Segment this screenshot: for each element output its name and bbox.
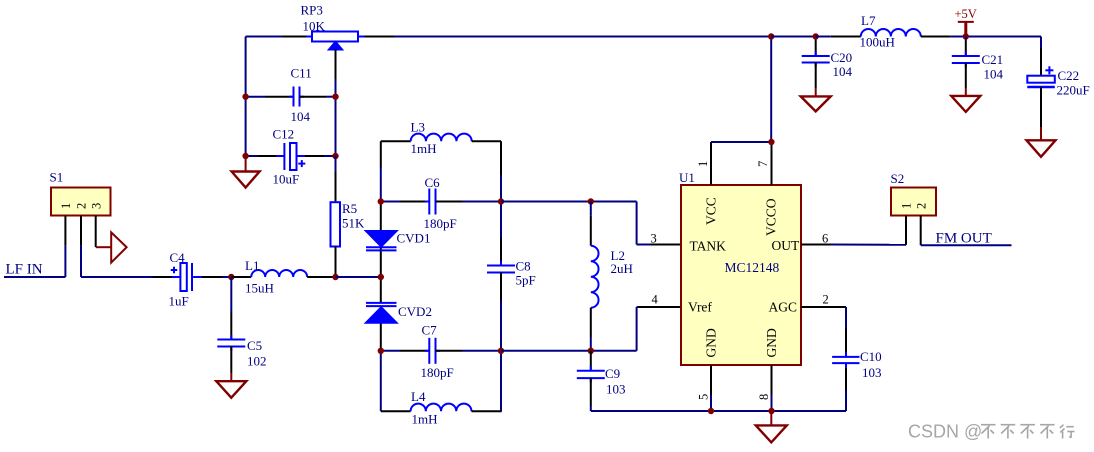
- svg-text:S2: S2: [891, 171, 905, 186]
- svg-text:RP3: RP3: [301, 3, 323, 18]
- svg-text:FM OUT: FM OUT: [936, 231, 992, 247]
- svg-text:GND: GND: [704, 328, 719, 357]
- svg-text:7: 7: [756, 161, 770, 167]
- svg-text:1uF: 1uF: [169, 294, 189, 309]
- svg-text:GND: GND: [764, 328, 779, 357]
- svg-text:10uF: 10uF: [273, 172, 300, 187]
- svg-text:104: 104: [833, 64, 853, 79]
- svg-text:S1: S1: [50, 170, 64, 185]
- svg-text:4: 4: [652, 293, 659, 307]
- svg-text:CVD2: CVD2: [398, 304, 432, 319]
- svg-text:180pF: 180pF: [424, 216, 457, 231]
- svg-text:L4: L4: [411, 389, 426, 404]
- svg-text:2uH: 2uH: [611, 261, 633, 276]
- svg-text:L7: L7: [861, 13, 876, 28]
- svg-text:2: 2: [914, 203, 928, 209]
- svg-text:220uF: 220uF: [1057, 83, 1090, 98]
- svg-text:1: 1: [59, 203, 73, 209]
- svg-text:LF IN: LF IN: [6, 262, 43, 278]
- svg-text:8: 8: [757, 394, 771, 400]
- svg-text:L1: L1: [245, 258, 259, 273]
- svg-text:6: 6: [822, 232, 828, 246]
- svg-text:OUT: OUT: [772, 238, 800, 253]
- svg-text:VCCO: VCCO: [764, 198, 779, 236]
- svg-text:C21: C21: [982, 52, 1004, 67]
- svg-text:VCC: VCC: [704, 197, 719, 225]
- svg-text:AGC: AGC: [769, 300, 798, 315]
- svg-text:103: 103: [862, 365, 882, 380]
- svg-text:100uH: 100uH: [860, 35, 895, 50]
- svg-text:MC12148: MC12148: [725, 260, 780, 275]
- svg-text:180pF: 180pF: [421, 365, 454, 380]
- svg-text:C10: C10: [860, 349, 882, 364]
- svg-text:C8: C8: [516, 259, 531, 274]
- svg-text:1mH: 1mH: [412, 412, 438, 427]
- svg-text:C5: C5: [247, 338, 262, 353]
- svg-text:C4: C4: [170, 250, 186, 265]
- svg-text:C6: C6: [425, 175, 441, 190]
- svg-text:104: 104: [984, 67, 1004, 82]
- svg-text:2: 2: [75, 203, 89, 209]
- svg-text:10K: 10K: [303, 19, 326, 34]
- svg-text:103: 103: [606, 382, 626, 397]
- svg-text:+5V: +5V: [955, 7, 977, 21]
- svg-text:Vref: Vref: [688, 300, 712, 315]
- svg-text:CVD1: CVD1: [397, 231, 431, 246]
- svg-text:C7: C7: [422, 323, 438, 338]
- svg-text:15uH: 15uH: [245, 281, 274, 296]
- svg-text:51K: 51K: [342, 216, 365, 231]
- svg-text:1: 1: [696, 161, 710, 167]
- svg-text:L3: L3: [411, 120, 425, 135]
- svg-text:C22: C22: [1058, 68, 1080, 83]
- svg-text:U1: U1: [679, 170, 695, 185]
- svg-text:1: 1: [900, 203, 914, 209]
- svg-text:TANK: TANK: [690, 239, 727, 254]
- svg-text:C11: C11: [291, 66, 312, 81]
- svg-text:C20: C20: [831, 50, 853, 65]
- svg-text:102: 102: [247, 354, 267, 369]
- svg-text:104: 104: [291, 109, 311, 124]
- svg-text:C9: C9: [605, 366, 620, 381]
- svg-text:5pF: 5pF: [516, 273, 536, 288]
- svg-text:CSDN @: CSDN @: [908, 422, 982, 442]
- svg-text:2: 2: [823, 293, 829, 307]
- svg-text:1mH: 1mH: [411, 141, 437, 156]
- svg-text:3: 3: [89, 203, 103, 209]
- svg-text:5: 5: [697, 394, 711, 400]
- svg-text:C12: C12: [273, 127, 295, 142]
- svg-text:3: 3: [651, 232, 657, 246]
- svg-text:R5: R5: [342, 201, 357, 216]
